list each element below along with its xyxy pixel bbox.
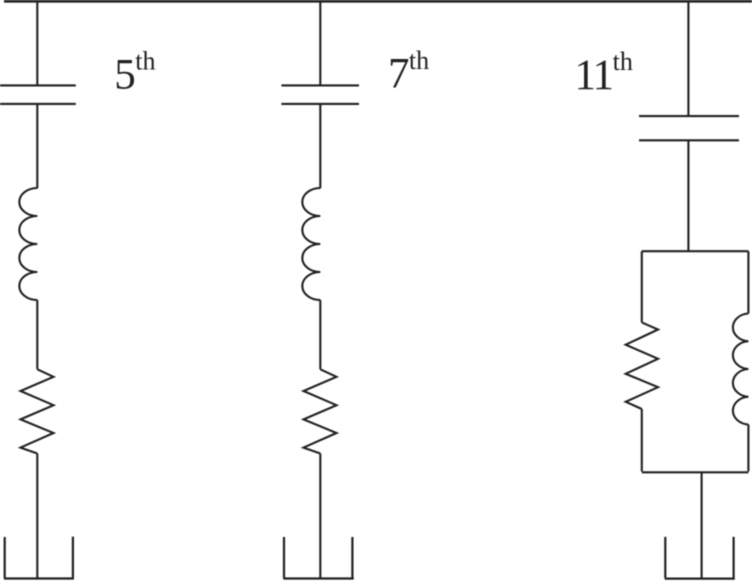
svg-text:th: th [135,47,155,76]
svg-text:th: th [409,46,429,75]
svg-text:th: th [613,47,633,76]
svg-text:1: 1 [593,52,615,99]
svg-text:7: 7 [388,51,410,98]
svg-text:5: 5 [114,51,136,98]
